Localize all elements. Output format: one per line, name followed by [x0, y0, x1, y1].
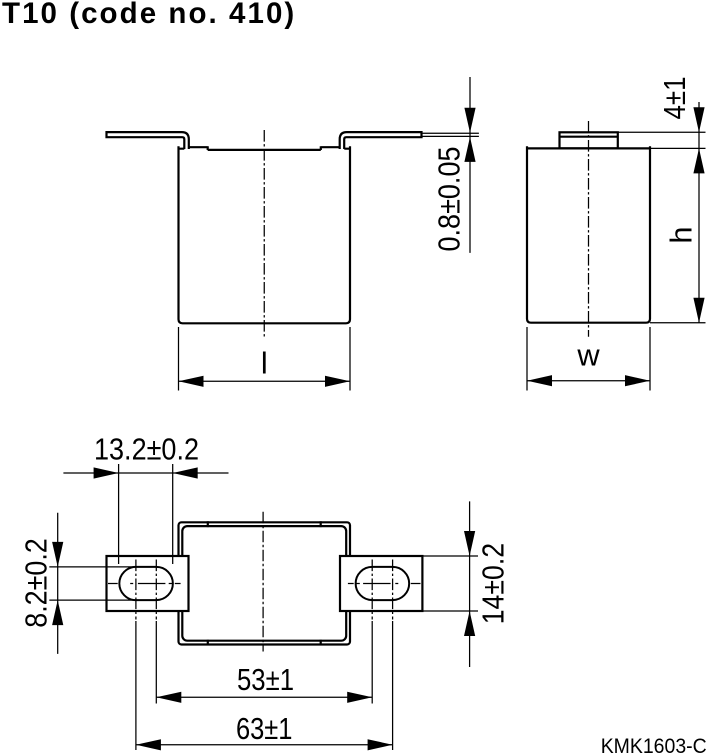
title: T10 (code no. 410): [2, 0, 296, 31]
svg-text:13.2±0.2: 13.2±0.2: [94, 432, 199, 467]
dimension 0.8±0.05: vertical dimension line with arrows: [469, 77, 471, 253]
front view: capacitor body outline: [179, 146, 351, 323]
bottom view: right mounting tab: [340, 556, 422, 611]
dimension 13.2±0.2: extension lines above left hole: [119, 464, 173, 564]
svg-text:0.8±0.05: 0.8±0.05: [432, 147, 467, 252]
side view: vertical dash-dot centerline: [588, 121, 590, 337]
bottom view: outer body outline: [179, 522, 351, 644]
dimension 63±1: dimension line with arrows: [136, 744, 393, 746]
bottom view: horizontal dash-dot centerline (explicit dashes): [108, 583, 421, 585]
front view: vertical dash-dot centerline: [263, 130, 265, 339]
dimensions 4±1 and h: shared vertical dimension line with arrows: [698, 102, 700, 323]
dimension 8.2±0.2: vertical dimension line with outside arrows: [57, 513, 59, 654]
svg-text:63±1: 63±1: [236, 711, 293, 746]
dimension 8.2±0.2: extension lines from hole top/bottom: [49, 567, 133, 600]
bottom view: left hole inner arc centerline / 53 extension: [155, 560, 157, 620]
svg-text:l: l: [261, 346, 268, 381]
dimension l: extension lines below body: [179, 327, 351, 391]
dimension l: dimension line with arrows: [179, 380, 351, 382]
dimension w: extension lines below body: [527, 327, 650, 391]
dimension 14±0.2: vertical dimension line with outside arrows: [469, 501, 471, 667]
dimension 4±1: extension line from tab top: [618, 131, 706, 133]
svg-text:w: w: [576, 338, 600, 373]
front view: body top edge with seam steps and lead notches: [178, 146, 352, 150]
dimension 14±0.2: extension lines from right tab top/bottom: [422, 556, 478, 611]
dimension 0.8±0.05: thin extension lines from right lead: [422, 133, 479, 136]
svg-text:h: h: [663, 226, 698, 243]
bottom view: right hole inner arc centerline / 53 extension: [371, 560, 373, 620]
bottom view: left mounting tab: [107, 556, 189, 611]
bottom view: vertical dash-dot centerline of body: [262, 512, 264, 652]
side view: terminal tab inner seam line: [560, 136, 618, 138]
svg-text:53±1: 53±1: [237, 662, 294, 697]
svg-text:14±0.2: 14±0.2: [475, 543, 510, 624]
dimension w: dimension line with arrows: [527, 380, 650, 382]
bottom view: right tab slot hole: [356, 567, 410, 600]
front view: left lead (bent terminal strip): [107, 132, 189, 149]
front view: right lead (bent terminal strip): [340, 132, 422, 149]
bottom view: right hole outer arc centerline / 63 extension: [392, 560, 394, 620]
dimension h: extension lines from body top and bottom: [650, 148, 706, 322]
side view: capacitor body outline: [526, 146, 651, 322]
bottom view: lead seam ticks on top and bottom edges: [208, 521, 321, 645]
svg-text:4±1: 4±1: [657, 77, 692, 120]
dimension 53±1: dimension line with arrows: [156, 696, 372, 698]
bottom view: left tab slot hole: [119, 567, 173, 600]
side view: terminal tab on top: [560, 132, 618, 148]
bottom view: left hole outer arc centerline / 63 extension: [135, 560, 137, 620]
dimension 13.2±0.2: dimension line with outside arrows: [63, 472, 228, 474]
bottom view: inner rounded body outline: [182, 526, 346, 641]
svg-text:KMK1603-C: KMK1603-C: [601, 734, 707, 755]
svg-text:8.2±0.2: 8.2±0.2: [19, 538, 54, 628]
